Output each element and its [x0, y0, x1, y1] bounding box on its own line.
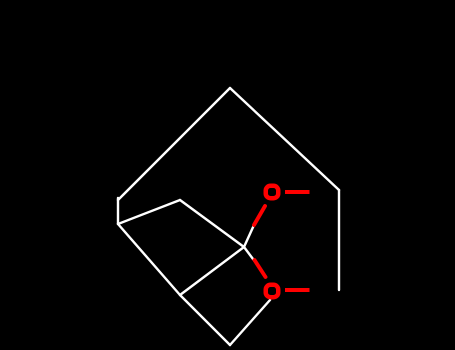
wire W5	[118, 200, 180, 224]
wire W7	[118, 224, 180, 295]
wire W10	[244, 247, 255, 261]
oxygen O2	[266, 285, 279, 298]
wire W4	[180, 200, 244, 247]
bond to O1 red half	[254, 206, 265, 225]
wire W9	[244, 225, 254, 247]
wire W11	[180, 295, 230, 345]
wire W6 short vertical	[117, 198, 119, 224]
wire W3	[338, 190, 340, 290]
bond to O2 red half	[255, 260, 266, 277]
bond from O1 to methyl	[285, 190, 310, 194]
wire W1	[118, 88, 230, 200]
oxygen O1	[266, 186, 279, 199]
bond from O2 to methyl	[285, 288, 310, 292]
wire W12	[230, 300, 270, 345]
wire W8	[180, 247, 244, 295]
wire W2	[230, 88, 339, 190]
